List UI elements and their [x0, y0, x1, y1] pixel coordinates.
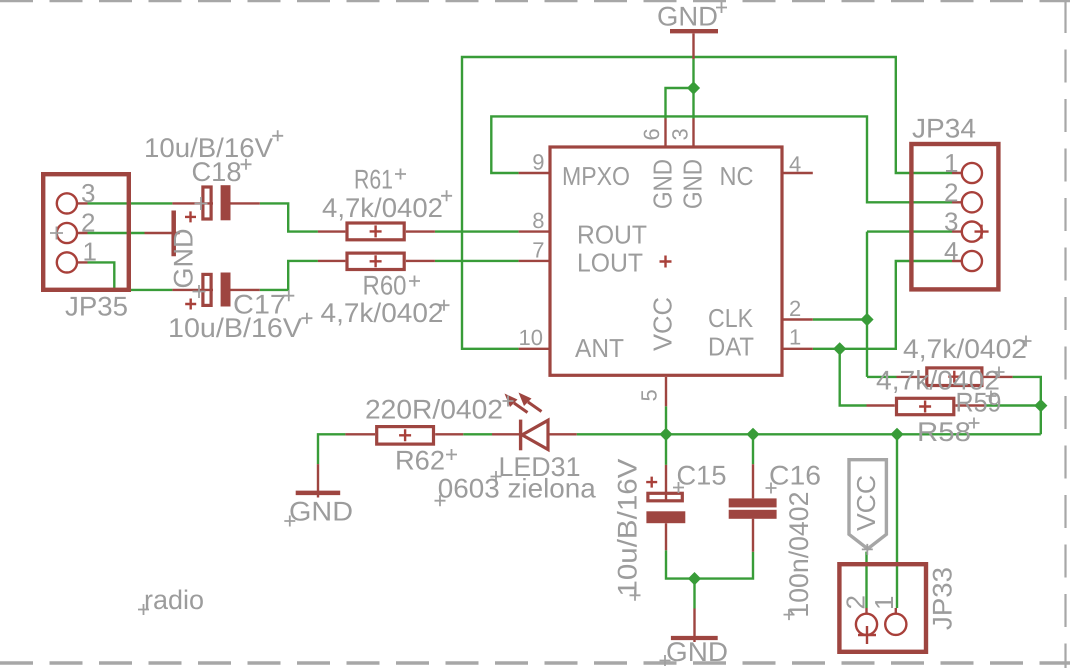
origin cross C16 label: [766, 483, 777, 494]
origin cross C18 label: [241, 159, 252, 170]
connector JP34 pin 3 circle: [962, 222, 982, 242]
frame top: [0, 0, 1070, 2]
svg-text:10u/B/16V: 10u/B/16V: [168, 313, 302, 343]
svg-text:JP33: JP33: [928, 567, 958, 630]
origin cross C17: [193, 285, 206, 298]
origin cross GND R62 label: [284, 516, 295, 527]
origin cross R59 value label: [1021, 336, 1032, 347]
origin cross VCC flag: [862, 544, 873, 555]
svg-text:9: 9: [532, 150, 544, 175]
value plus R60: [370, 255, 382, 267]
resistor R61 leads: [318, 230, 435, 232]
frame right: [1064, 0, 1066, 668]
svg-text:ANT: ANT: [575, 333, 624, 363]
origin cross R60 value label: [439, 300, 450, 311]
origin cross 10u/B/16V C15 label: [630, 590, 641, 601]
svg-text:C18: C18: [192, 157, 242, 187]
svg-text:4: 4: [944, 236, 958, 266]
svg-text:radio: radio: [144, 585, 204, 615]
value plus R58: [919, 401, 931, 413]
connector JP34 pin 4 circle: [962, 251, 982, 271]
svg-text:R58: R58: [917, 417, 971, 447]
origin cross R61 value label: [441, 190, 452, 201]
svg-text:4: 4: [789, 152, 801, 177]
svg-text:DAT: DAT: [708, 332, 754, 362]
op-amp U1 pin leads (IC pins): [519, 119, 813, 407]
resistor R59 body: [927, 368, 982, 386]
connector JP34 pin stubs: [952, 173, 961, 261]
svg-text:GND: GND: [657, 2, 718, 32]
svg-text:NC: NC: [720, 161, 754, 191]
origin cross 0603 zielona label: [435, 495, 446, 506]
svg-text:0603 zielona: 0603 zielona: [438, 474, 597, 504]
wire JP35 pin2 to GND left: [88, 232, 145, 234]
svg-text:1: 1: [944, 148, 958, 178]
svg-text:R61: R61: [354, 165, 393, 195]
value plus R59: [948, 371, 960, 383]
resistor R62 leads: [345, 433, 463, 435]
svg-text:6: 6: [639, 128, 664, 140]
LED31 triangle: [522, 420, 548, 449]
origin cross 10u/B/16V C17 label: [301, 313, 312, 324]
origin cross R62 label: [446, 449, 457, 460]
svg-text:3: 3: [668, 128, 693, 140]
LED31 cathode bar: [519, 420, 522, 451]
svg-text:C15: C15: [677, 461, 727, 491]
ground symbol left bar: [171, 211, 176, 257]
svg-text:GND: GND: [678, 159, 708, 209]
polarity plus C18: [185, 211, 196, 222]
svg-text:7: 7: [532, 238, 544, 263]
polarity plus C15: [646, 477, 657, 488]
wire R59/R58 right side to VCC rail: [985, 377, 1041, 434]
capacitor C16 leads: [752, 464, 754, 551]
svg-text:2: 2: [81, 208, 95, 238]
capacitor C17 plates: [203, 274, 211, 305]
svg-text:4,7k/0402: 4,7k/0402: [903, 334, 1027, 364]
wire net ANT: IC pin10 to JP34 pin1: [462, 57, 952, 349]
resistor R60 leads: [318, 260, 435, 262]
svg-text:GND: GND: [169, 229, 199, 289]
capacitor C15 leads: [665, 465, 667, 550]
resistor R58 leads: [867, 404, 985, 406]
connector JP34 pin 1 circle: [962, 163, 982, 183]
ground R62 lead: [317, 464, 319, 497]
wire GND left / R62 / LED row: [318, 434, 492, 464]
junction node DAT: [833, 342, 846, 355]
capacitor C16 plates: [729, 498, 777, 507]
svg-text:CLK: CLK: [708, 303, 754, 333]
value plus R62: [399, 429, 411, 441]
connector JP35 pin stubs: [78, 203, 88, 262]
ground left lead: [145, 232, 180, 234]
connector JP33 pin 1 circle: [885, 614, 906, 635]
resistor R61 body: [347, 223, 404, 240]
wire net DAT: IC pin1, JP34 pin4, R58: [813, 261, 952, 406]
resistor R59 leads: [897, 376, 1013, 378]
connector JP33 pin 2 circle: [856, 614, 877, 635]
svg-text:4,7k/0402: 4,7k/0402: [322, 193, 443, 223]
svg-text:JP34: JP34: [912, 114, 976, 144]
svg-text:1: 1: [869, 596, 899, 610]
connector JP35 pin 2 circle: [57, 223, 77, 243]
origin cross GND bottom label: [660, 655, 671, 666]
svg-text:VCC: VCC: [648, 297, 678, 351]
svg-text:4,7k/0402: 4,7k/0402: [321, 298, 444, 328]
svg-text:R62: R62: [395, 446, 445, 476]
origin cross C15 label: [673, 482, 684, 493]
connector JP33 pin stubs: [867, 608, 896, 613]
svg-text:R60: R60: [363, 271, 407, 301]
origin cross R60 label: [409, 276, 420, 287]
polarity plus C17: [185, 299, 196, 310]
svg-text:10: 10: [519, 325, 543, 350]
frame bottom: [0, 661, 1070, 665]
svg-text:MPXO: MPXO: [562, 161, 630, 191]
connector JP35 pin 3 circle: [57, 193, 77, 213]
resistor R60 body: [347, 253, 404, 269]
origin cross LED31 label: [491, 471, 502, 482]
capacitor C17 leads: [172, 289, 259, 291]
LED31 leads: [492, 433, 577, 435]
junction node VCC at C16: [746, 428, 759, 441]
origin cross R58 value label: [994, 367, 1005, 378]
origin cross 10u/B/16V C18 label: [272, 130, 283, 141]
connector JP35 body: [43, 174, 129, 290]
svg-text:2: 2: [841, 595, 871, 609]
origin cross 100n/0402 label: [784, 609, 795, 620]
wire JP35 pin1 to C17 to R60 to IC pin7: [88, 261, 519, 290]
origin cross GND top label: [716, 2, 727, 13]
origin cross C17 label: [283, 290, 294, 301]
svg-text:GND: GND: [666, 637, 728, 667]
junction node VCC at C15: [659, 428, 672, 441]
wire net VCC rail y=434: [577, 406, 1041, 608]
origin cross C18: [195, 197, 208, 210]
capacitor C15 plates: [648, 493, 682, 501]
svg-text:3: 3: [81, 178, 95, 208]
svg-text:8: 8: [532, 208, 544, 233]
origin cross 220R/0402 label: [503, 396, 514, 407]
svg-text:2: 2: [944, 178, 958, 208]
svg-text:JP35: JP35: [65, 292, 128, 322]
junction node CLK: [860, 313, 873, 326]
svg-text:LOUT: LOUT: [577, 248, 643, 278]
junction node R58/R59 right: [1034, 399, 1047, 412]
connector JP34 body: [911, 144, 998, 289]
svg-text:4,7k/0402: 4,7k/0402: [876, 366, 1000, 396]
value plus R61: [370, 225, 382, 237]
origin cross R61 label: [395, 169, 406, 180]
origin cross JP35: [50, 227, 63, 240]
ground top lead: [692, 34, 694, 60]
origin cross radio label: [138, 604, 149, 615]
svg-text:2: 2: [789, 296, 801, 321]
connector JP33 body: [839, 564, 926, 652]
svg-text:100n/0402: 100n/0402: [784, 492, 814, 618]
origin cross JP34: [975, 225, 989, 239]
wire JP35 pin3 to C18 to R61 to IC pin8: [88, 203, 519, 231]
origin cross R58 label: [969, 418, 980, 429]
origin cross R59 label: [986, 391, 997, 402]
op-amp U1 body (radio IC): [550, 147, 782, 375]
resistor R62 body: [377, 427, 434, 445]
connector JP35 pin 1 circle: [57, 252, 77, 272]
ground symbol R62 bar: [296, 491, 341, 496]
ground bottom lead: [693, 609, 695, 643]
svg-text:GND: GND: [648, 159, 678, 209]
svg-text:3: 3: [944, 207, 958, 237]
LED31 light arrow 2: [519, 393, 542, 412]
LED31 light arrow 1: [505, 394, 528, 413]
ground symbol bottom bar: [671, 636, 718, 640]
capacitor C18 leads: [172, 202, 259, 204]
wire C15/C16 bottom to GND: [666, 550, 753, 608]
svg-text:1: 1: [83, 237, 97, 267]
wire net GND top: symbol to IC pins 6 and 3: [666, 59, 694, 119]
origin cross U1: [660, 256, 672, 268]
svg-text:ROUT: ROUT: [577, 220, 647, 250]
capacitor C18 plates: [203, 187, 211, 219]
origin cross JP33: [858, 626, 876, 644]
svg-text:GND: GND: [289, 497, 353, 527]
svg-text:5: 5: [637, 389, 662, 401]
connector JP34 pin 2 circle: [962, 192, 982, 212]
svg-text:220R/0402: 220R/0402: [365, 395, 503, 425]
wire net CLK: IC pin2, JP34 pin3, R59: [813, 232, 952, 377]
VCC supply flag: [849, 460, 886, 549]
svg-text:1: 1: [789, 325, 801, 350]
svg-text:VCC: VCC: [851, 475, 881, 531]
resistor R58 body: [897, 398, 954, 414]
junction node GND bottom rail: [688, 572, 701, 585]
ground symbol top bar: [670, 29, 718, 33]
svg-text:10u/B/16V: 10u/B/16V: [613, 459, 643, 597]
wire net MPXO: IC pin9 to JP34 pin2: [491, 116, 952, 202]
svg-text:C16: C16: [769, 461, 821, 491]
junction node VCC at JP33: [890, 428, 903, 441]
junction node GND top: [687, 81, 700, 94]
